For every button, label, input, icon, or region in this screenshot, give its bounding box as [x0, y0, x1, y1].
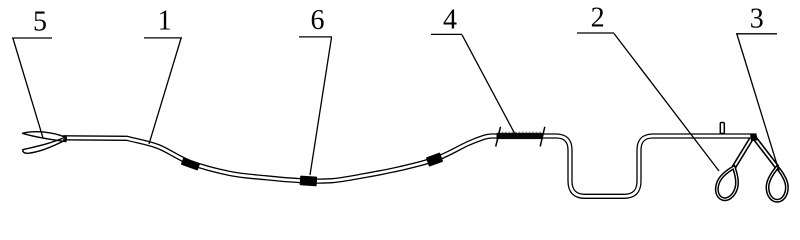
svg-text:1: 1: [158, 6, 172, 37]
jaw upper blade: [23, 132, 67, 142]
svg-text:5: 5: [33, 7, 47, 38]
tick mark right of section 4: [540, 127, 545, 147]
handle left strip: [734, 139, 752, 168]
tick mark left of section 4: [496, 127, 501, 147]
leader line for label 5: [12, 38, 52, 138]
leader line for label 1: [144, 38, 182, 144]
marker band 1 (black band on shaft): [181, 157, 200, 170]
finger ring left (handle loop): [713, 164, 742, 202]
marker band 3 (black band on shaft): [426, 152, 443, 166]
jaw lower blade: [23, 137, 67, 153]
dark sleeve section 4: [497, 133, 543, 139]
wire: flexible tube shaft outer line: [63, 136, 754, 196]
handle junction: [750, 133, 758, 141]
wire: tube inner white core (double-line effect): [63, 136, 754, 196]
svg-text:2: 2: [591, 3, 605, 34]
svg-text:6: 6: [311, 5, 325, 36]
leader line for label 3: [736, 34, 779, 171]
leader line for label 6: [299, 37, 332, 175]
svg-text:4: 4: [443, 5, 457, 36]
marker band 2 (black band on shaft): [300, 176, 318, 187]
leader line for label 2: [577, 33, 719, 171]
finger ring right (handle loop): [768, 167, 787, 201]
svg-text:3: 3: [750, 4, 764, 35]
pin on handle: [720, 123, 724, 134]
leader line for label 4: [431, 34, 516, 136]
handle right strip: [755, 139, 777, 168]
